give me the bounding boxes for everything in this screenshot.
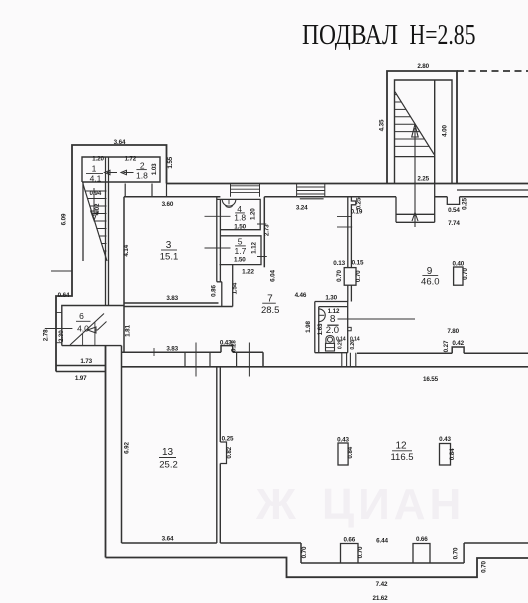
pilaster 1 (341, 544, 359, 564)
svg-text:0.25: 0.25 (462, 198, 469, 210)
stairwell inner walls (395, 80, 453, 184)
svg-text:0.64: 0.64 (58, 292, 70, 299)
stair entry box into room 9 (396, 184, 435, 223)
bottom wall mid-left (220, 543, 528, 563)
svg-text:3.83: 3.83 (166, 346, 178, 353)
svg-text:1.20: 1.20 (92, 156, 104, 163)
svg-text:4.00: 4.00 (442, 125, 449, 137)
svg-text:1.8: 1.8 (136, 170, 148, 180)
stair flight bottom edge (395, 156, 435, 158)
svg-text:ЦИАН: ЦИАН (322, 480, 465, 529)
svg-text:1.22: 1.22 (242, 268, 254, 275)
entry steps left (231, 184, 260, 197)
svg-text:2.80: 2.80 (417, 63, 429, 70)
svg-text:3.64: 3.64 (114, 139, 126, 146)
room 5 walls (220, 236, 262, 265)
svg-text:0.66: 0.66 (416, 536, 428, 543)
room 13 right wall (217, 367, 221, 543)
column 2 room 12 (440, 444, 451, 466)
svg-text:3.24: 3.24 (296, 204, 308, 211)
room 6 stair steps (83, 322, 95, 345)
svg-text:1.63: 1.63 (317, 323, 324, 335)
svg-text:0.26: 0.26 (350, 340, 356, 350)
svg-text:1.98: 1.98 (305, 321, 312, 333)
wall stubs under rooms 1-2 (125, 184, 166, 197)
stair direction arrow (412, 125, 419, 228)
svg-text:1.30: 1.30 (325, 294, 337, 301)
svg-text:4.1: 4.1 (90, 174, 102, 184)
room 8 wall jog (348, 327, 352, 330)
svg-text:0.15: 0.15 (352, 260, 364, 267)
svg-text:8: 8 (330, 314, 336, 325)
top-left block outer wall (56, 145, 167, 372)
svg-text:12: 12 (395, 441, 407, 452)
svg-text:4.0: 4.0 (77, 324, 89, 334)
stair steps (85, 191, 107, 259)
svg-text:1.81: 1.81 (125, 325, 132, 337)
svg-text:6.92: 6.92 (124, 442, 131, 454)
room 8 walls (315, 302, 348, 353)
dim leader (337, 216, 352, 218)
svg-text:1.97: 1.97 (75, 375, 87, 382)
svg-text:1.55: 1.55 (167, 156, 174, 168)
pilaster 2 (413, 544, 430, 564)
room 4 walls (217, 199, 260, 229)
column room 9 (454, 267, 463, 285)
svg-text:0.70: 0.70 (462, 268, 469, 280)
dim ticks left of room 6 (56, 312, 62, 314)
svg-text:0.84: 0.84 (347, 446, 354, 458)
svg-text:7.74: 7.74 (448, 220, 460, 227)
svg-text:Н=2.85: Н=2.85 (410, 20, 476, 51)
partition rooms 1/2 (106, 157, 109, 182)
svg-text:4.46: 4.46 (295, 292, 307, 299)
room 3 left wall (123, 197, 125, 352)
niche 0.54 in top wall (447, 197, 459, 205)
svg-text:2: 2 (140, 161, 145, 171)
top wall second line right (457, 189, 528, 191)
svg-text:1.50: 1.50 (234, 257, 246, 264)
svg-text:1.12: 1.12 (251, 242, 258, 254)
svg-text:1.8: 1.8 (234, 212, 246, 222)
svg-text:0.40: 0.40 (452, 260, 464, 267)
door lines in south wall (196, 343, 249, 377)
svg-text:6.04: 6.04 (270, 270, 277, 282)
svg-text:2.73: 2.73 (264, 224, 271, 236)
svg-text:0.54: 0.54 (448, 207, 460, 214)
door ticks right of rooms 4/5 (257, 224, 267, 257)
sink room 8 (319, 309, 325, 322)
svg-text:3: 3 (166, 240, 172, 251)
tick on left wall (51, 270, 72, 272)
svg-text:1.7: 1.7 (234, 246, 246, 256)
dashed boundary line (457, 70, 528, 72)
rooms 1-2 inner box (82, 157, 160, 182)
svg-text:0.82: 0.82 (226, 446, 233, 458)
svg-text:1.50: 1.50 (234, 224, 246, 231)
svg-text:15.1: 15.1 (160, 252, 179, 263)
svg-text:2.0: 2.0 (326, 325, 339, 336)
svg-text:7.42: 7.42 (376, 581, 388, 588)
room 13 bottom wall (122, 542, 217, 544)
room 9 bottom wall (357, 347, 528, 353)
wall strip below room 6 (56, 366, 106, 372)
svg-text:21.62: 21.62 (372, 595, 388, 602)
door jambs in thick wall (185, 352, 237, 367)
column 1 room 12 (338, 443, 348, 465)
svg-text:0.43: 0.43 (439, 436, 451, 443)
svg-text:0.86: 0.86 (211, 285, 218, 297)
svg-text:0.70: 0.70 (481, 561, 488, 573)
svg-text:1.72: 1.72 (124, 156, 136, 163)
svg-text:ПОДВАЛ: ПОДВАЛ (302, 20, 398, 51)
outer bottom wall (106, 558, 528, 578)
svg-text:3.83: 3.83 (166, 295, 178, 302)
sink room 4 (222, 200, 236, 206)
svg-text:7.80: 7.80 (447, 328, 459, 335)
svg-text:1.73: 1.73 (80, 358, 92, 365)
wall stubs below room 8 (342, 353, 356, 367)
top wall inner face (264, 196, 528, 198)
svg-text:6.44: 6.44 (376, 538, 388, 545)
stairwell top-right outer wall (387, 71, 457, 184)
room 3 bottom wall (124, 303, 233, 307)
svg-text:116.5: 116.5 (390, 452, 413, 463)
svg-text:0.66: 0.66 (343, 537, 355, 544)
room 6 box (62, 306, 124, 346)
stair diagonal (83, 184, 107, 261)
svg-text:0.70: 0.70 (336, 270, 343, 282)
svg-text:3.60: 3.60 (162, 201, 174, 208)
toilet room 8 (326, 336, 334, 344)
svg-text:28.5: 28.5 (261, 305, 280, 316)
tick (153, 348, 155, 356)
wall below room 5 (232, 265, 234, 307)
room 3 top wall (124, 196, 220, 198)
stair block right wall (106, 182, 109, 306)
svg-text:5: 5 (238, 237, 243, 247)
svg-text:0.84: 0.84 (449, 448, 456, 460)
svg-text:3.64: 3.64 (162, 536, 174, 543)
svg-text:0.25: 0.25 (222, 435, 234, 442)
svg-text:0.42: 0.42 (452, 340, 464, 347)
room 8 north wall (315, 301, 348, 303)
room 6 arrow (88, 322, 107, 334)
door tick room 5 (205, 247, 231, 249)
watermark (255, 480, 465, 529)
building outer top wall (167, 183, 528, 185)
wall below pier (348, 285, 352, 301)
left outer wall lower (105, 346, 107, 558)
svg-text:1: 1 (92, 163, 97, 173)
svg-text:6.09: 6.09 (61, 213, 68, 225)
svg-text:13: 13 (162, 447, 174, 458)
stair down arrow (91, 188, 98, 221)
svg-text:1.03: 1.03 (151, 163, 158, 175)
svg-text:16.55: 16.55 (423, 376, 439, 383)
stair flight steps (395, 95, 430, 147)
door tick room 4 (205, 215, 231, 217)
svg-text:4.35: 4.35 (379, 119, 386, 131)
svg-text:0.28: 0.28 (231, 340, 238, 352)
room 13 left wall (121, 346, 123, 543)
svg-text:46.0: 46.0 (421, 277, 440, 288)
pier on wall (344, 268, 356, 286)
svg-text:0.70: 0.70 (357, 546, 364, 558)
entry steps right (297, 184, 325, 199)
door arrow room 1 (105, 170, 118, 174)
svg-text:0.19: 0.19 (351, 208, 363, 215)
svg-text:0.27: 0.27 (443, 340, 450, 352)
svg-text:25.2: 25.2 (159, 460, 178, 471)
thick wall lower face / rooms 12-13 top (122, 366, 528, 368)
door arrow room 2 (121, 170, 134, 174)
stair landing divider (434, 80, 436, 184)
svg-text:0.29: 0.29 (337, 339, 343, 349)
corridor wall x264 (263, 197, 265, 267)
svg-text:0.43: 0.43 (337, 437, 349, 444)
svg-text:0.94: 0.94 (89, 190, 101, 197)
stair diagonal (395, 92, 434, 155)
room 9 west wall (348, 197, 356, 268)
svg-text:2.78: 2.78 (42, 329, 49, 341)
svg-text:0.70: 0.70 (453, 547, 460, 559)
svg-text:0.70: 0.70 (355, 270, 362, 282)
svg-text:6: 6 (79, 311, 84, 321)
room 6 stair diagonal (70, 314, 104, 346)
svg-text:2.25: 2.25 (417, 176, 429, 183)
svg-text:0.13: 0.13 (333, 260, 345, 267)
svg-text:4.02: 4.02 (94, 203, 101, 215)
svg-text:Ж: Ж (255, 480, 296, 529)
svg-text:0.70: 0.70 (301, 546, 308, 558)
thick wall upper face (122, 346, 264, 367)
svg-text:1.20: 1.20 (250, 208, 257, 220)
stair block left wall (82, 182, 84, 261)
tick (337, 226, 352, 228)
niche in room 13 wall (220, 442, 226, 464)
svg-text:4.14: 4.14 (123, 244, 130, 256)
rooms 4/5 left wall (217, 197, 222, 307)
